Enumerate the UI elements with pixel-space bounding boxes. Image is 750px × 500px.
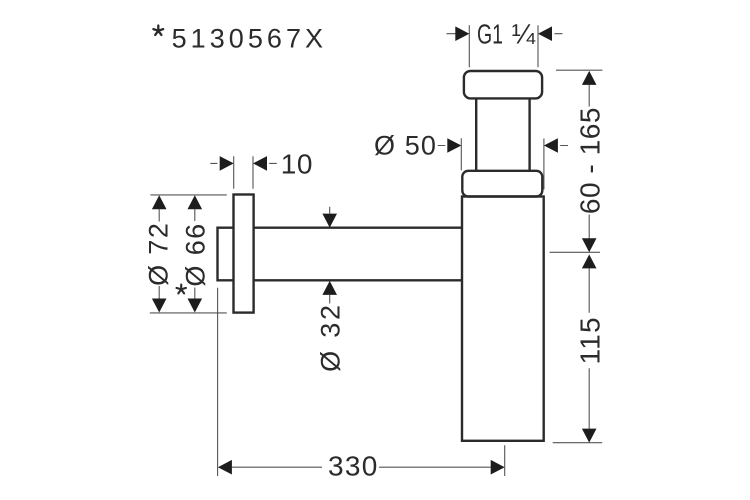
svg-text:Ø 66: Ø 66	[181, 222, 211, 286]
top nut	[464, 71, 542, 98]
dimension diameter 66	[181, 195, 211, 312]
svg-text:60 - 165: 60 - 165	[574, 107, 605, 214]
svg-text:10: 10	[281, 149, 313, 180]
inlet pipe stub	[218, 228, 234, 281]
dimension 10	[210, 149, 313, 189]
svg-text:Ø 50: Ø 50	[374, 131, 437, 161]
dimension diameter 50	[374, 131, 568, 190]
dimension diameter 72	[144, 195, 227, 313]
footnote asterisk	[177, 285, 186, 294]
dimension 115	[553, 254, 606, 442]
wall flange	[234, 195, 254, 313]
trap body	[462, 197, 544, 441]
dimension 330	[218, 288, 505, 482]
svg-text:¼: ¼	[512, 19, 536, 50]
svg-text:G1: G1	[477, 19, 503, 50]
body collar	[462, 171, 542, 197]
dimension 60-165	[550, 70, 606, 252]
svg-text:330: 330	[328, 450, 379, 481]
product code asterisk	[153, 26, 163, 35]
dimension diameter 32	[315, 207, 345, 372]
svg-text:Ø 32: Ø 32	[315, 302, 345, 372]
horizontal pipe	[254, 228, 462, 281]
svg-text:Ø 72: Ø 72	[144, 222, 174, 286]
svg-text:5130567X: 5130567X	[172, 24, 328, 54]
dimension G1 1/4	[447, 19, 563, 68]
svg-text:115: 115	[574, 316, 605, 364]
product code label	[172, 24, 328, 54]
riser pipe	[476, 98, 529, 170]
